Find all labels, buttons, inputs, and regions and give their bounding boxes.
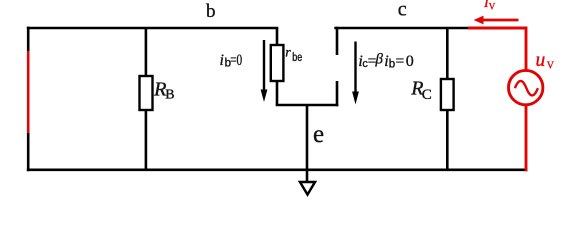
- svg-text:b: b: [389, 59, 395, 71]
- source uv circle: [509, 70, 543, 104]
- arrow ib current: [261, 40, 268, 102]
- wire RB branch: [145, 28, 148, 170]
- svg-text:β: β: [375, 52, 384, 68]
- svg-text:V: V: [547, 61, 555, 72]
- wire top right section black (node c rail): [334, 27, 469, 30]
- wire red top (source to node c): [468, 28, 526, 71]
- label rbe: [285, 46, 302, 65]
- resistor rbe: [271, 45, 284, 81]
- svg-text:b: b: [206, 1, 216, 22]
- label ic=beta ib=0: [358, 52, 413, 71]
- svg-text:u: u: [536, 50, 546, 71]
- wire emitter dropper: [306, 105, 309, 170]
- wire rbe branch: [276, 28, 279, 105]
- arrow ic current: [352, 42, 359, 105]
- svg-text:e: e: [313, 121, 324, 148]
- source uv sine symbol: [515, 81, 538, 96]
- label RC: [410, 78, 432, 104]
- label uv (red): [536, 50, 555, 72]
- wire collector upper stub: [336, 27, 339, 55]
- svg-text:V: V: [489, 2, 496, 12]
- wire RC branch: [446, 28, 449, 170]
- arrow Iv current (red, pointing left): [474, 16, 519, 25]
- svg-text:=: =: [396, 53, 405, 70]
- svg-text:r: r: [285, 46, 291, 61]
- svg-text:C: C: [422, 87, 432, 103]
- wire bottom rail: [27, 169, 528, 172]
- wire collector lower stub: [336, 81, 339, 106]
- svg-text:be: be: [292, 52, 302, 64]
- wire ground stub: [306, 170, 309, 183]
- wire left vertical black bottom: [27, 133, 30, 171]
- wire red below source: [525, 105, 528, 172]
- label RB: [153, 79, 175, 103]
- wire left vertical black top: [27, 27, 30, 52]
- label ib=0: [220, 52, 243, 70]
- svg-text:i: i: [220, 52, 224, 69]
- resistor RC: [441, 79, 454, 110]
- wire top left section (node b rail): [27, 27, 278, 30]
- svg-text:c: c: [398, 0, 407, 21]
- ground symbol triangle: [300, 182, 315, 195]
- wire left vertical red middle segment: [27, 51, 30, 134]
- svg-text:0: 0: [406, 53, 414, 70]
- svg-text:B: B: [165, 88, 174, 103]
- wire emitter horizontal: [276, 104, 339, 107]
- label Iv (red): [483, 0, 496, 12]
- resistor RB: [140, 76, 153, 110]
- svg-text:=0: =0: [230, 52, 242, 69]
